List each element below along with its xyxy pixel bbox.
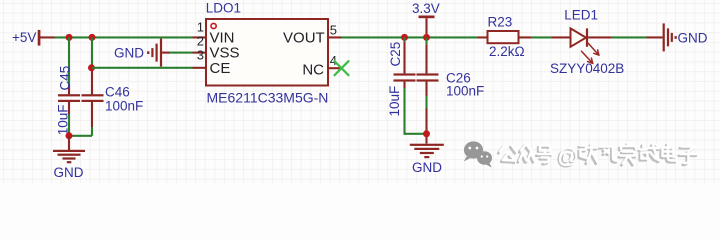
svg-text:CE: CE [210,60,231,77]
svg-text:100nF: 100nF [105,98,143,113]
capacitor C45 [58,94,80,136]
junction dot A (69,37.4) [66,34,73,41]
svg-text:4: 4 [330,53,337,68]
wire LED1 to GND [611,36,647,38]
svg-text:3: 3 [197,48,204,63]
LED LED1 [552,28,612,63]
wire C25 top [403,37,405,73]
svg-text:VOUT: VOUT [283,29,325,46]
svg-text:2.2kΩ: 2.2kΩ [489,44,525,59]
power port GND right [647,23,708,51]
svg-text:NC: NC [302,62,324,79]
svg-text:GND: GND [114,45,144,60]
wire VOUT rail [342,36,478,38]
svg-text:C45: C45 [57,66,72,91]
svg-text:R23: R23 [488,15,513,30]
junction dot C25 (404.5,37.4) [401,34,408,41]
junction dot C26 (426.5,37.4) [423,34,430,41]
resistor R23 [478,31,532,43]
svg-text:C25: C25 [388,42,403,67]
op-amp U1: LDO chip LDO1 pins [193,36,342,69]
wire C26 top [425,37,427,73]
svg-text:LDO1: LDO1 [206,0,241,15]
wire C45 top [68,37,70,94]
svg-text:5: 5 [330,23,337,38]
power port 3.3V [412,1,440,37]
ground symbol below C26 [410,144,444,159]
wire GND port to pin2 [170,52,192,54]
watermark text 公众号 @张飞实战电子 (simulated strokes) [498,143,697,170]
wire CE to pin3 [92,67,193,69]
no-connect X on pin 4 [335,61,349,75]
junction dot B (92,37.4) [89,34,96,41]
svg-text:SZYY0402B: SZYY0402B [550,61,624,76]
wire bottom left [69,135,92,137]
capacitor C26 [417,73,439,143]
svg-text:@: @ [558,145,579,168]
junction dot CE (91.5,67.8) [88,64,95,71]
svg-text:GND: GND [412,160,442,175]
svg-text:1: 1 [197,19,204,34]
svg-text:100nF: 100nF [446,84,484,99]
svg-text:10uF: 10uF [55,105,70,136]
wire +5V rail [55,36,193,38]
svg-text:GND: GND [54,165,84,180]
capacitor C46 [82,94,104,136]
power port +5V [12,30,55,46]
power port GND near chip (VSS) [114,39,170,67]
svg-text:GND: GND [678,30,708,45]
svg-text:+5V: +5V [12,30,36,45]
watermark wechat icon [464,141,492,167]
junction dot bottom-right (426.5,133.8) [423,130,430,137]
svg-text:LED1: LED1 [564,8,598,23]
pin-1 indicator circle [211,23,216,28]
svg-text:3.3V: 3.3V [412,1,440,16]
chip LDO1 body [206,19,328,86]
capacitor C25 [394,73,416,134]
wire C46 top [91,37,93,94]
ground symbol below C45/C46 [53,136,85,164]
junction dot bottom-left (69,135.8) [66,132,73,139]
wire R23 to LED1 [531,36,552,38]
svg-text:C46: C46 [105,84,130,99]
svg-text:2: 2 [197,33,204,48]
wire bottom right [405,133,428,135]
svg-text:10uF: 10uF [387,86,402,117]
svg-text:ME6211C33M5G-N: ME6211C33M5G-N [207,89,329,105]
